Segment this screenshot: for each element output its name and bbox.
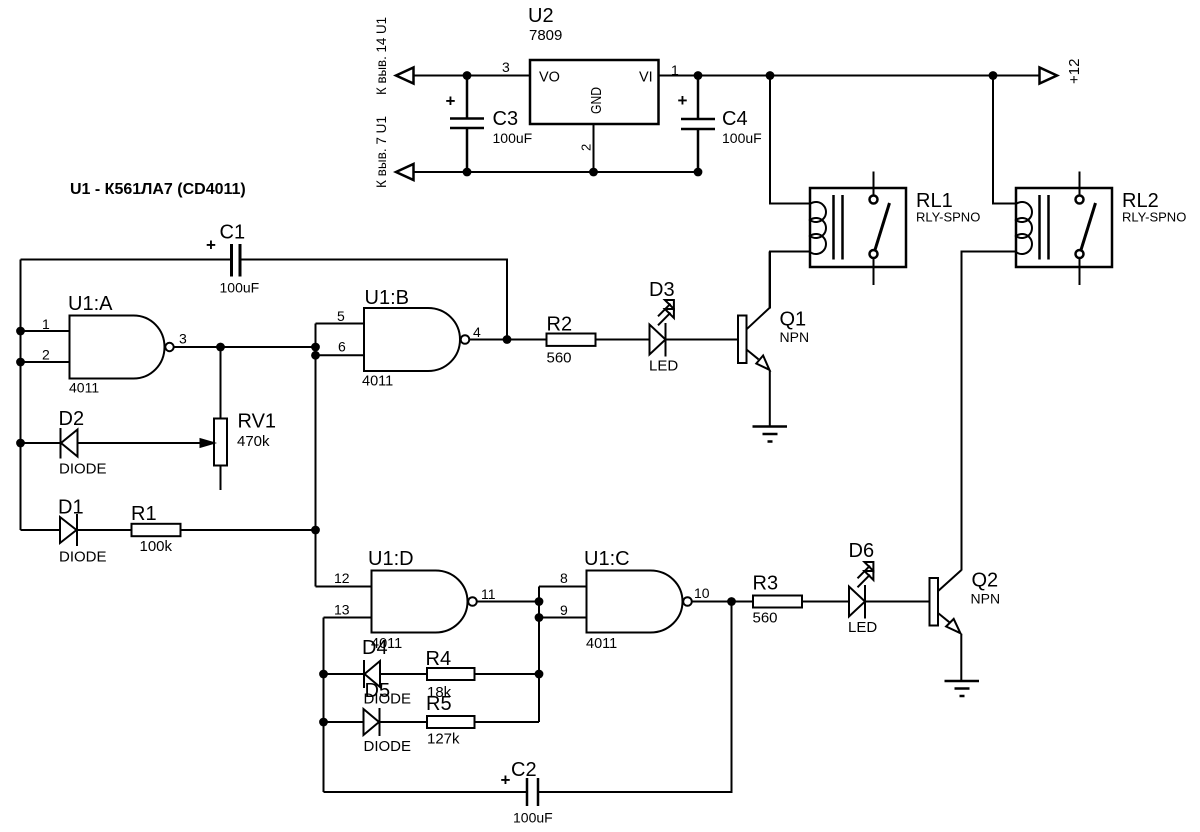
svg-text:100uF: 100uF	[722, 130, 762, 146]
svg-text:R2: R2	[547, 314, 573, 336]
node bottom C3	[463, 168, 472, 177]
svg-text:U1:C: U1:C	[584, 548, 630, 570]
pin 9 wire U1:C	[539, 617, 587, 619]
svg-text:3: 3	[179, 331, 187, 347]
wire RL1 coil feed	[770, 76, 810, 204]
svg-text:100uF: 100uF	[513, 810, 553, 826]
capacitor C3	[450, 76, 484, 173]
node bottom C4	[694, 168, 703, 177]
svg-text:RV1: RV1	[238, 411, 277, 433]
svg-text:+: +	[501, 771, 511, 790]
node top RL1 feed	[766, 71, 775, 80]
node pin9	[535, 613, 544, 622]
svg-text:NPN: NPN	[780, 329, 810, 345]
wire top rail right	[659, 75, 1040, 77]
pin 12 wire U1:D	[316, 586, 372, 588]
svg-text:RLY-SPNO: RLY-SPNO	[916, 210, 980, 225]
svg-text:К выв. 14 U1: К выв. 14 U1	[373, 17, 389, 95]
svg-text:100uF: 100uF	[220, 280, 260, 296]
ground Q2	[945, 681, 980, 696]
svg-text:4011: 4011	[586, 636, 617, 652]
port arrow +12	[1040, 68, 1058, 84]
pin 8 wire U1:C	[539, 586, 587, 588]
wire RL2 coil feed	[993, 76, 1016, 204]
wire bottom rail	[414, 171, 699, 173]
svg-text:R4: R4	[426, 648, 452, 670]
transistor Q2	[930, 570, 1001, 682]
svg-text:13: 13	[334, 602, 350, 618]
wire C2 left	[324, 791, 528, 793]
svg-text:7809: 7809	[529, 27, 562, 44]
wire R5 right	[475, 721, 540, 723]
node D2 rail	[16, 439, 25, 448]
wire pin13 rail	[323, 618, 325, 793]
port arrow K vyv.7 U1	[396, 164, 414, 180]
svg-text:VO: VO	[539, 70, 560, 86]
svg-text:+: +	[678, 91, 688, 110]
svg-text:9: 9	[560, 602, 568, 618]
wire U1:A output pin 3	[174, 346, 316, 348]
led D3	[649, 279, 678, 375]
node top RL2 feed	[989, 71, 998, 80]
relay RL2	[1016, 172, 1186, 286]
svg-text:2: 2	[42, 347, 50, 363]
wire D6 to Q2 base	[865, 601, 930, 603]
svg-text:1: 1	[42, 316, 50, 332]
svg-text:VI: VI	[639, 70, 653, 86]
wire mid rail	[315, 324, 317, 587]
led D6	[848, 540, 877, 636]
node pin6 rail	[311, 351, 320, 360]
svg-text:4011: 4011	[69, 380, 99, 396]
svg-text:10: 10	[694, 585, 710, 601]
svg-text:2: 2	[579, 144, 594, 151]
capacitor C4	[681, 76, 715, 173]
node RV1 branch	[216, 343, 225, 352]
wire C1 right	[240, 260, 507, 340]
svg-text:C2: C2	[511, 759, 537, 781]
wire C2 right	[538, 602, 732, 793]
svg-text:GND: GND	[589, 87, 605, 114]
wire U1:B output pin 4	[469, 339, 546, 341]
svg-text:+: +	[446, 92, 456, 111]
svg-text:D6: D6	[849, 540, 875, 562]
wire RL2 to Q2 collector	[962, 252, 1017, 571]
svg-text:12: 12	[334, 570, 350, 586]
svg-text:U1:B: U1:B	[365, 287, 409, 309]
svg-text:Q2: Q2	[972, 570, 999, 592]
relay RL1	[810, 172, 980, 286]
diode D4	[324, 673, 364, 675]
node C1 to output4	[503, 335, 512, 344]
node out11	[535, 597, 544, 606]
node pin3 to rail	[311, 343, 320, 352]
svg-text:560: 560	[547, 350, 572, 367]
svg-text:5: 5	[337, 308, 345, 324]
svg-text:100uF: 100uF	[493, 130, 533, 146]
svg-text:DIODE: DIODE	[59, 461, 107, 478]
node D4 rail	[319, 670, 328, 679]
svg-text:560: 560	[753, 610, 778, 627]
node R4 right	[535, 670, 544, 679]
wire RV1 branch	[220, 347, 222, 419]
wire R3 to D6	[802, 601, 849, 603]
svg-text:U1 - К561ЛА7 (CD4011): U1 - К561ЛА7 (CD4011)	[70, 181, 246, 198]
svg-text:C4: C4	[722, 108, 748, 130]
svg-text:NPN: NPN	[971, 591, 1001, 607]
nand gate U1:B	[364, 308, 460, 371]
svg-text:+: +	[206, 236, 216, 255]
wire left rail	[20, 260, 22, 531]
svg-text:4011: 4011	[362, 374, 393, 390]
svg-text:1: 1	[671, 62, 679, 78]
svg-text:6: 6	[338, 339, 346, 355]
svg-text:D4: D4	[362, 637, 388, 659]
node top C3	[463, 71, 472, 80]
svg-text:D1: D1	[58, 497, 84, 519]
nand gate U1:D	[372, 571, 468, 633]
svg-text:Q1: Q1	[780, 309, 807, 331]
svg-text:LED: LED	[848, 619, 877, 636]
diode D1	[21, 529, 61, 531]
nand gate U1:A	[70, 316, 165, 379]
wire mid rail 2	[538, 587, 540, 723]
resistor R4	[427, 668, 475, 680]
svg-text:100k: 100k	[140, 538, 173, 555]
wire R2 to D3	[596, 339, 650, 341]
nand gate U1:C	[587, 571, 683, 633]
svg-text:C3: C3	[493, 108, 519, 130]
svg-text:11: 11	[481, 586, 496, 602]
resistor R5	[427, 716, 475, 728]
svg-text:470k: 470k	[237, 433, 270, 450]
svg-text:+12: +12	[1066, 59, 1083, 84]
wire top rail left	[414, 75, 531, 77]
pin 2 wire U1:A	[21, 361, 70, 363]
pin 6 wire U1:B	[316, 354, 365, 356]
svg-text:LED: LED	[649, 358, 678, 375]
svg-text:U1:D: U1:D	[368, 548, 414, 570]
svg-text:4: 4	[473, 324, 481, 340]
svg-text:U2: U2	[528, 5, 554, 27]
wire U2 GND drop	[593, 124, 595, 172]
node R1 rail	[311, 526, 320, 535]
node pin1 rail	[16, 327, 25, 336]
svg-text:3: 3	[502, 59, 510, 75]
svg-text:D3: D3	[649, 279, 675, 301]
svg-text:D2: D2	[59, 408, 85, 430]
wire C1 left	[21, 259, 232, 261]
svg-text:R3: R3	[753, 573, 779, 595]
wire U1:C output pin 10	[692, 601, 753, 603]
wire RL1 to Q1 collector	[770, 252, 810, 309]
port arrow K vyv.14 U1	[396, 68, 414, 84]
svg-text:R5: R5	[426, 693, 452, 715]
wire R1 to rail	[181, 529, 316, 531]
wire U1:D output pin 11	[477, 601, 539, 603]
node D5 rail	[319, 718, 328, 727]
resistor R2	[547, 334, 596, 346]
diode D2	[21, 442, 61, 444]
node out10 C2	[727, 597, 736, 606]
resistor R3	[753, 596, 802, 608]
svg-text:R1: R1	[131, 503, 157, 525]
potentiometer RV1	[214, 419, 227, 466]
capacitor C1	[232, 244, 241, 277]
pin 13 wire U1:D	[324, 617, 372, 619]
resistor R1	[132, 524, 181, 536]
capacitor C2	[527, 778, 538, 806]
wire R4 right	[475, 673, 540, 675]
pin 1 wire U1:A	[21, 330, 70, 332]
svg-text:8: 8	[560, 570, 568, 586]
regulator U2 7809	[530, 60, 659, 124]
svg-text:127k: 127k	[427, 731, 460, 748]
ground Q1	[753, 427, 788, 442]
svg-text:DIODE: DIODE	[364, 738, 412, 755]
svg-text:D5: D5	[365, 680, 391, 702]
svg-text:DIODE: DIODE	[59, 549, 107, 566]
svg-text:U1:A: U1:A	[68, 293, 113, 315]
svg-text:К выв. 7 U1: К выв. 7 U1	[373, 116, 389, 188]
node top C4	[694, 71, 703, 80]
transistor Q1	[738, 252, 809, 427]
svg-text:RLY-SPNO: RLY-SPNO	[1122, 210, 1186, 225]
pin 5 wire U1:B	[316, 323, 365, 325]
diode D5	[324, 721, 364, 723]
wire D3 to Q1 base	[666, 339, 739, 341]
svg-text:C1: C1	[220, 222, 246, 244]
node bottom GND U2	[589, 168, 598, 177]
node pin2 rail	[16, 358, 25, 367]
